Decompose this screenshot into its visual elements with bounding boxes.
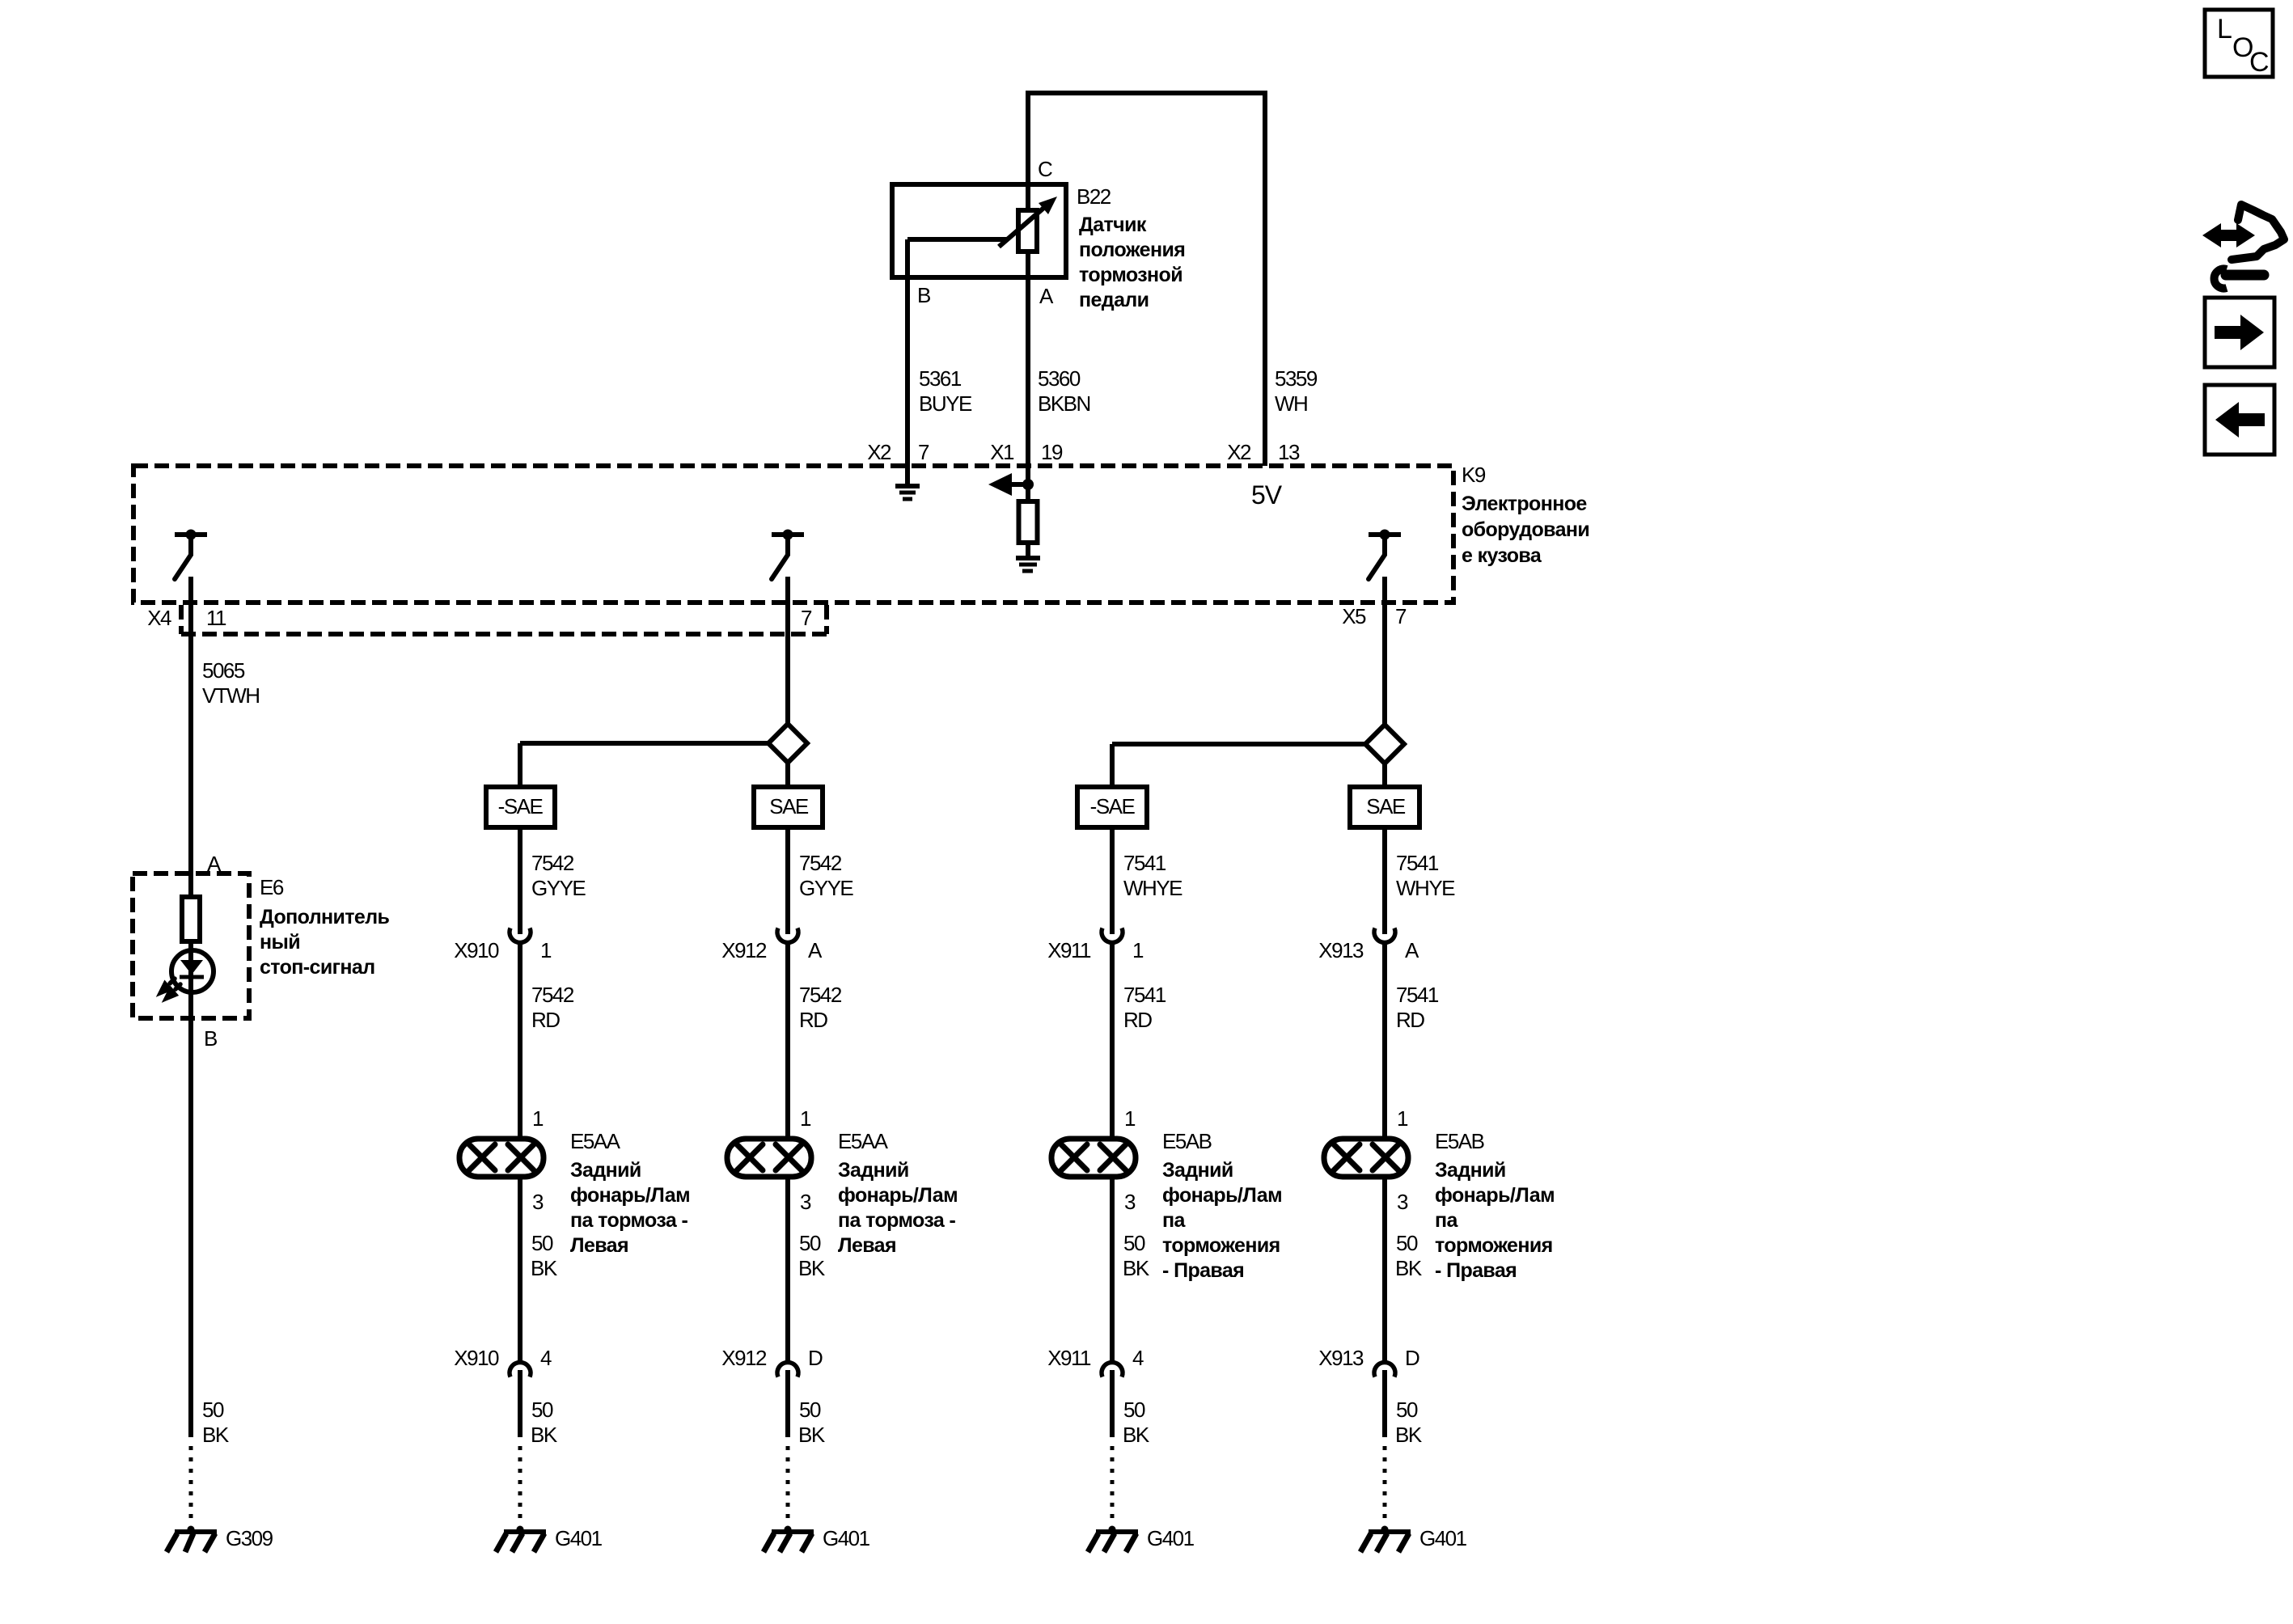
svg-text:BK: BK xyxy=(1395,1256,1423,1280)
svg-text:A: A xyxy=(207,852,222,876)
svg-text:A: A xyxy=(1039,284,1054,308)
svg-text:X912: X912 xyxy=(721,938,767,962)
svg-text:RD: RD xyxy=(799,1008,827,1032)
svg-text:Задний: Задний xyxy=(570,1159,641,1182)
svg-text:G401: G401 xyxy=(1419,1526,1467,1550)
svg-text:3: 3 xyxy=(800,1190,811,1214)
svg-text:е кузова: е кузова xyxy=(1462,544,1542,567)
svg-text:педали: педали xyxy=(1079,289,1149,311)
svg-text:BK: BK xyxy=(798,1423,826,1447)
svg-text:11: 11 xyxy=(206,606,226,630)
svg-text:VTWH: VTWH xyxy=(202,683,260,708)
svg-text:BK: BK xyxy=(1123,1256,1150,1280)
svg-text:X2: X2 xyxy=(1227,440,1251,464)
svg-text:фонарь/Лам: фонарь/Лам xyxy=(838,1184,958,1207)
svg-text:Левая: Левая xyxy=(570,1234,628,1257)
svg-text:4: 4 xyxy=(1132,1346,1144,1370)
svg-text:1: 1 xyxy=(532,1106,544,1131)
svg-text:Задний: Задний xyxy=(1162,1159,1233,1182)
svg-text:D: D xyxy=(1405,1346,1419,1370)
svg-text:7: 7 xyxy=(918,440,929,464)
svg-text:Задний: Задний xyxy=(1435,1159,1506,1182)
svg-text:RD: RD xyxy=(1396,1008,1424,1032)
svg-text:E5AA: E5AA xyxy=(838,1129,889,1153)
svg-text:5065: 5065 xyxy=(202,658,245,683)
svg-text:Дополнитель: Дополнитель xyxy=(260,906,390,928)
svg-text:5360: 5360 xyxy=(1038,366,1081,391)
svg-text:Электронное: Электронное xyxy=(1462,493,1587,515)
svg-text:GYYE: GYYE xyxy=(799,876,853,900)
svg-text:5361: 5361 xyxy=(919,366,962,391)
svg-text:B: B xyxy=(917,283,930,307)
svg-text:X912: X912 xyxy=(721,1346,767,1370)
svg-text:L: L xyxy=(2217,14,2232,44)
svg-text:B: B xyxy=(204,1026,217,1051)
svg-text:BUYE: BUYE xyxy=(919,391,972,416)
svg-text:A: A xyxy=(1405,938,1419,962)
svg-text:5359: 5359 xyxy=(1275,366,1318,391)
svg-text:A: A xyxy=(808,938,823,962)
svg-text:Датчик: Датчик xyxy=(1079,214,1147,236)
svg-text:50: 50 xyxy=(1396,1398,1418,1422)
svg-text:B22: B22 xyxy=(1077,184,1111,209)
svg-text:X913: X913 xyxy=(1318,1346,1364,1370)
svg-text:BK: BK xyxy=(531,1423,558,1447)
svg-text:торможения: торможения xyxy=(1162,1234,1280,1257)
svg-text:па тормоза -: па тормоза - xyxy=(838,1209,956,1232)
svg-text:тормозной: тормозной xyxy=(1079,264,1182,286)
svg-text:фонарь/Лам: фонарь/Лам xyxy=(1162,1184,1282,1207)
svg-text:- Правая: - Правая xyxy=(1435,1259,1517,1282)
svg-text:7541: 7541 xyxy=(1123,851,1166,875)
svg-text:G401: G401 xyxy=(1147,1526,1195,1550)
svg-text:WHYE: WHYE xyxy=(1396,876,1455,900)
svg-text:RD: RD xyxy=(531,1008,560,1032)
svg-text:BKBN: BKBN xyxy=(1038,391,1090,416)
svg-text:50: 50 xyxy=(202,1398,224,1422)
svg-text:50: 50 xyxy=(531,1398,553,1422)
svg-text:E5AB: E5AB xyxy=(1435,1129,1484,1153)
svg-text:G401: G401 xyxy=(555,1526,603,1550)
svg-text:3: 3 xyxy=(1124,1190,1136,1214)
svg-text:50: 50 xyxy=(531,1231,553,1255)
svg-text:X1: X1 xyxy=(990,440,1014,464)
svg-text:50: 50 xyxy=(799,1398,821,1422)
svg-text:E5AB: E5AB xyxy=(1162,1129,1212,1153)
svg-text:па тормоза -: па тормоза - xyxy=(570,1209,688,1232)
svg-text:7542: 7542 xyxy=(799,983,842,1007)
svg-text:X2: X2 xyxy=(867,440,891,464)
svg-text:X910: X910 xyxy=(454,938,499,962)
svg-text:7: 7 xyxy=(1395,604,1407,628)
svg-text:X4: X4 xyxy=(147,606,171,630)
svg-text:3: 3 xyxy=(532,1190,544,1214)
svg-text:7542: 7542 xyxy=(799,851,842,875)
svg-text:- Правая: - Правая xyxy=(1162,1259,1244,1282)
svg-text:1: 1 xyxy=(540,938,552,962)
svg-text:X5: X5 xyxy=(1342,604,1366,628)
svg-text:WH: WH xyxy=(1275,391,1307,416)
svg-text:па: па xyxy=(1162,1209,1187,1232)
svg-text:X910: X910 xyxy=(454,1346,499,1370)
svg-text:торможения: торможения xyxy=(1435,1234,1553,1257)
svg-text:фонарь/Лам: фонарь/Лам xyxy=(570,1184,690,1207)
svg-text:E5AA: E5AA xyxy=(570,1129,621,1153)
svg-text:1: 1 xyxy=(1124,1106,1136,1131)
svg-text:C: C xyxy=(1038,157,1052,181)
svg-text:па: па xyxy=(1435,1209,1459,1232)
svg-text:стоп-сигнал: стоп-сигнал xyxy=(260,956,375,979)
svg-text:BK: BK xyxy=(1395,1423,1423,1447)
svg-text:WHYE: WHYE xyxy=(1123,876,1182,900)
svg-text:RD: RD xyxy=(1123,1008,1152,1032)
svg-text:положения: положения xyxy=(1079,239,1185,261)
svg-text:7541: 7541 xyxy=(1123,983,1166,1007)
svg-text:5V: 5V xyxy=(1251,480,1283,510)
svg-text:G401: G401 xyxy=(823,1526,870,1550)
svg-text:фонарь/Лам: фонарь/Лам xyxy=(1435,1184,1555,1207)
svg-text:7542: 7542 xyxy=(531,851,574,875)
svg-text:Задний: Задний xyxy=(838,1159,909,1182)
svg-text:оборудовани: оборудовани xyxy=(1462,518,1589,541)
svg-text:D: D xyxy=(808,1346,823,1370)
svg-text:BK: BK xyxy=(202,1423,230,1447)
svg-text:3: 3 xyxy=(1397,1190,1408,1214)
svg-text:SAE: SAE xyxy=(1366,794,1406,818)
svg-text:ный: ный xyxy=(260,931,300,954)
svg-text:BK: BK xyxy=(531,1256,558,1280)
svg-text:BK: BK xyxy=(798,1256,826,1280)
svg-text:-SAE: -SAE xyxy=(1090,794,1136,818)
svg-text:50: 50 xyxy=(1123,1231,1145,1255)
svg-text:K9: K9 xyxy=(1462,463,1486,487)
svg-text:SAE: SAE xyxy=(769,794,809,818)
svg-text:-SAE: -SAE xyxy=(498,794,544,818)
svg-text:1: 1 xyxy=(1397,1106,1408,1131)
svg-text:13: 13 xyxy=(1278,440,1300,464)
svg-text:19: 19 xyxy=(1041,440,1063,464)
svg-text:E6: E6 xyxy=(260,875,284,899)
svg-text:7541: 7541 xyxy=(1396,851,1439,875)
svg-text:7541: 7541 xyxy=(1396,983,1439,1007)
svg-text:G309: G309 xyxy=(226,1526,273,1550)
svg-text:GYYE: GYYE xyxy=(531,876,586,900)
svg-text:50: 50 xyxy=(799,1231,821,1255)
svg-text:1: 1 xyxy=(800,1106,811,1131)
svg-text:50: 50 xyxy=(1396,1231,1418,1255)
svg-text:Левая: Левая xyxy=(838,1234,896,1257)
svg-text:4: 4 xyxy=(540,1346,552,1370)
svg-text:C: C xyxy=(2249,47,2270,78)
svg-text:X911: X911 xyxy=(1047,1346,1091,1370)
svg-text:X911: X911 xyxy=(1047,938,1091,962)
svg-text:50: 50 xyxy=(1123,1398,1145,1422)
svg-text:7542: 7542 xyxy=(531,983,574,1007)
svg-text:BK: BK xyxy=(1123,1423,1150,1447)
svg-text:X913: X913 xyxy=(1318,938,1364,962)
svg-text:1: 1 xyxy=(1132,938,1144,962)
svg-text:7: 7 xyxy=(801,606,812,630)
